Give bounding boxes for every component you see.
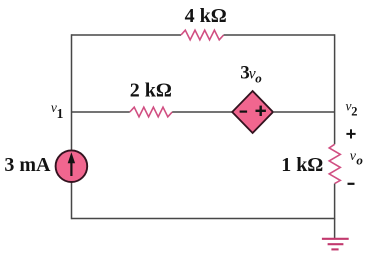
label plus vo bbox=[346, 129, 355, 138]
svg-text:4 kΩ: 4 kΩ bbox=[185, 5, 227, 27]
label 3vo bbox=[240, 63, 262, 86]
wire middle-left segment bbox=[72, 111, 130, 113]
svg-text:1 kΩ: 1 kΩ bbox=[281, 154, 323, 176]
wire bottom bbox=[72, 218, 335, 220]
node v1 bbox=[51, 100, 64, 121]
wire right vertical upper bbox=[334, 34, 336, 144]
svg-text:o: o bbox=[356, 152, 363, 167]
wire left vertical bbox=[71, 34, 73, 219]
dependent source U1 3vo bbox=[232, 91, 273, 133]
node v2 bbox=[346, 98, 358, 118]
resistor R3 1 kOhm bbox=[329, 144, 340, 183]
wire top-left segment bbox=[72, 34, 182, 36]
resistor R1 4 kOhm bbox=[181, 30, 224, 40]
wire middle-center segment bbox=[172, 111, 232, 113]
wire middle-right segment bbox=[273, 111, 335, 113]
current source I1 3 mA bbox=[56, 150, 88, 182]
svg-text:3 mA: 3 mA bbox=[4, 154, 51, 176]
svg-text:1: 1 bbox=[57, 106, 64, 121]
svg-text:o: o bbox=[255, 71, 262, 86]
label minus vo bbox=[348, 183, 355, 185]
svg-text:2 kΩ: 2 kΩ bbox=[130, 80, 172, 102]
label vo bbox=[350, 149, 364, 168]
ground bbox=[322, 219, 349, 250]
svg-text:2: 2 bbox=[351, 104, 357, 118]
wire top-right segment bbox=[224, 34, 335, 36]
resistor R2 2 kOhm bbox=[130, 107, 172, 117]
wire right vertical lower bbox=[334, 184, 336, 220]
